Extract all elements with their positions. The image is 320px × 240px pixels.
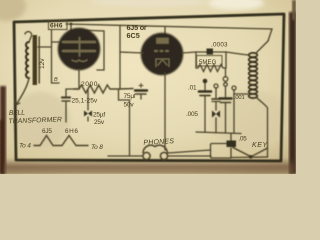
- paper background: [0, 0, 296, 174]
- node: open terminal circles chain: [223, 77, 228, 82]
- svg-text:6C5: 6C5: [127, 31, 140, 40]
- wire: V2 plate to grid-leak block: [182, 52, 196, 53]
- node junction at rail/V1 stub: [70, 23, 73, 26]
- plus sign for C3: [139, 84, 143, 88]
- svg-text:To 4: To 4: [19, 143, 31, 150]
- svg-text:.005: .005: [186, 111, 198, 118]
- left dark torn edge: [0, 86, 6, 174]
- resistor R1 2000 ohm zigzag: [74, 85, 133, 93]
- wire: key to right rail: [251, 148, 268, 157]
- tube V1 label box 6H6: [49, 20, 68, 30]
- wire: bottom rail: [108, 156, 268, 158]
- svg-text:6J5: 6J5: [42, 128, 52, 135]
- key switch box: [211, 144, 232, 159]
- bell transformer secondary bracket: [38, 30, 60, 84]
- resistor R2 5MEG zigzag: [196, 65, 226, 72]
- svg-text:50v: 50v: [124, 102, 135, 109]
- phones jack J1: [143, 152, 150, 159]
- heater wiring note: bumps: [34, 136, 88, 146]
- svg-text:6H6: 6H6: [50, 23, 63, 30]
- svg-text:2000: 2000: [81, 81, 98, 88]
- svg-text:25µf: 25µf: [93, 112, 105, 119]
- grid capacitor C4 .0003 on top wire: [196, 51, 226, 53]
- wire: T2 top lead: [256, 41, 268, 53]
- label box 5MEG: [197, 56, 223, 67]
- bell transformer core bars: [33, 35, 37, 85]
- capacitor C2 25uf bowtie: [84, 111, 92, 117]
- right dark edge band: [289, 12, 296, 174]
- wire: V1 cathode down to resistor junction: [74, 69, 79, 89]
- svg-text:To 8: To 8: [91, 144, 103, 151]
- svg-text:.0003: .0003: [211, 42, 228, 49]
- svg-text:B: B: [54, 77, 58, 83]
- wire: fourth post down: [233, 90, 235, 133]
- svg-text:5MEG: 5MEG: [199, 60, 217, 66]
- tube V2 6J5/6C5 envelope: [142, 34, 183, 75]
- wire: grid-leak block verticals: [196, 52, 226, 77]
- wire: top rail stub to tube V2: [164, 27, 166, 36]
- wire: V2 grid stub: [120, 52, 143, 53]
- svg-text:.001: .001: [234, 95, 244, 101]
- wire: jog from resistor junction down to phones line: [119, 89, 130, 156]
- output transformer T2 winding: [249, 53, 258, 98]
- wire: stub to output transformer lower left: [234, 93, 248, 95]
- svg-text:75µf: 75µf: [124, 93, 136, 100]
- bell transformer bottom lead: [16, 78, 29, 105]
- bright spot top center: [208, 0, 264, 10]
- wire: top rail stub to tube V1: [70, 24, 72, 31]
- wire: V2 cathode down: [164, 73, 166, 150]
- capacitor C9 .05 blob: [227, 141, 237, 148]
- svg-text:6H6: 6H6: [65, 128, 79, 135]
- capacitor C5 .01 plates: [204, 83, 206, 90]
- bottom shadow under frame: [4, 158, 294, 174]
- bell transformer top lead curl: [25, 32, 32, 42]
- capacitor C3 75uf plates: [135, 89, 147, 91]
- svg-text:.05: .05: [239, 136, 248, 143]
- wire: cap C1 vertical: [65, 89, 67, 122]
- wire: V1 plate loop right and down to grid: [80, 30, 104, 70]
- svg-text:25,1-25v: 25,1-25v: [72, 98, 98, 105]
- wire: cluster bottom rail: [196, 132, 241, 134]
- wire: vertical from rail down through 2000 resistor junction: [119, 26, 121, 89]
- switch arm: [233, 148, 251, 157]
- svg-text:KEY: KEY: [252, 142, 269, 149]
- tube V1 6H6 envelope: [59, 29, 100, 70]
- tube V1 internal electrodes: [63, 38, 95, 62]
- wire: T2 upper-left stub: [226, 52, 248, 55]
- mottling: [0, 0, 26, 21]
- svg-text:BELL: BELL: [9, 109, 25, 117]
- svg-text:25v: 25v: [94, 119, 105, 126]
- capacitor C7 .005 bowtie: [212, 111, 220, 118]
- capacitor C8 .001 plates: [220, 97, 232, 99]
- capacitor C1 25uf electrolytic plates: [62, 96, 70, 98]
- bell transformer primary winding (coil): [26, 42, 29, 78]
- capacitor C6 plates on second post: [215, 88, 217, 98]
- wire: B+ top rail: [66, 24, 272, 41]
- node: dark terminal ball: [203, 79, 208, 84]
- svg-text:.01: .01: [188, 85, 197, 92]
- wire: T2 bottom lead down right side: [256, 97, 268, 157]
- border frame: [14, 14, 284, 161]
- svg-text:12v: 12v: [39, 58, 46, 69]
- wire: key box to phones: [168, 150, 211, 153]
- tube V2 internal electrodes: [155, 39, 169, 67]
